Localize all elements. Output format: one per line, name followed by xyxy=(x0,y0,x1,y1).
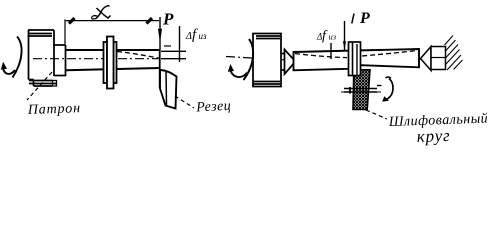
svg-text:из: из xyxy=(329,32,337,42)
svg-text:Патрон: Патрон xyxy=(27,101,81,118)
svg-text:P: P xyxy=(162,10,174,29)
svg-text:из: из xyxy=(199,31,208,41)
svg-text:круг: круг xyxy=(416,126,450,146)
svg-text:f: f xyxy=(322,29,328,44)
svg-text:Δ: Δ xyxy=(185,31,192,42)
svg-text:P: P xyxy=(359,10,370,27)
svg-text:Резец: Резец xyxy=(195,99,232,116)
svg-text:f: f xyxy=(192,27,198,43)
